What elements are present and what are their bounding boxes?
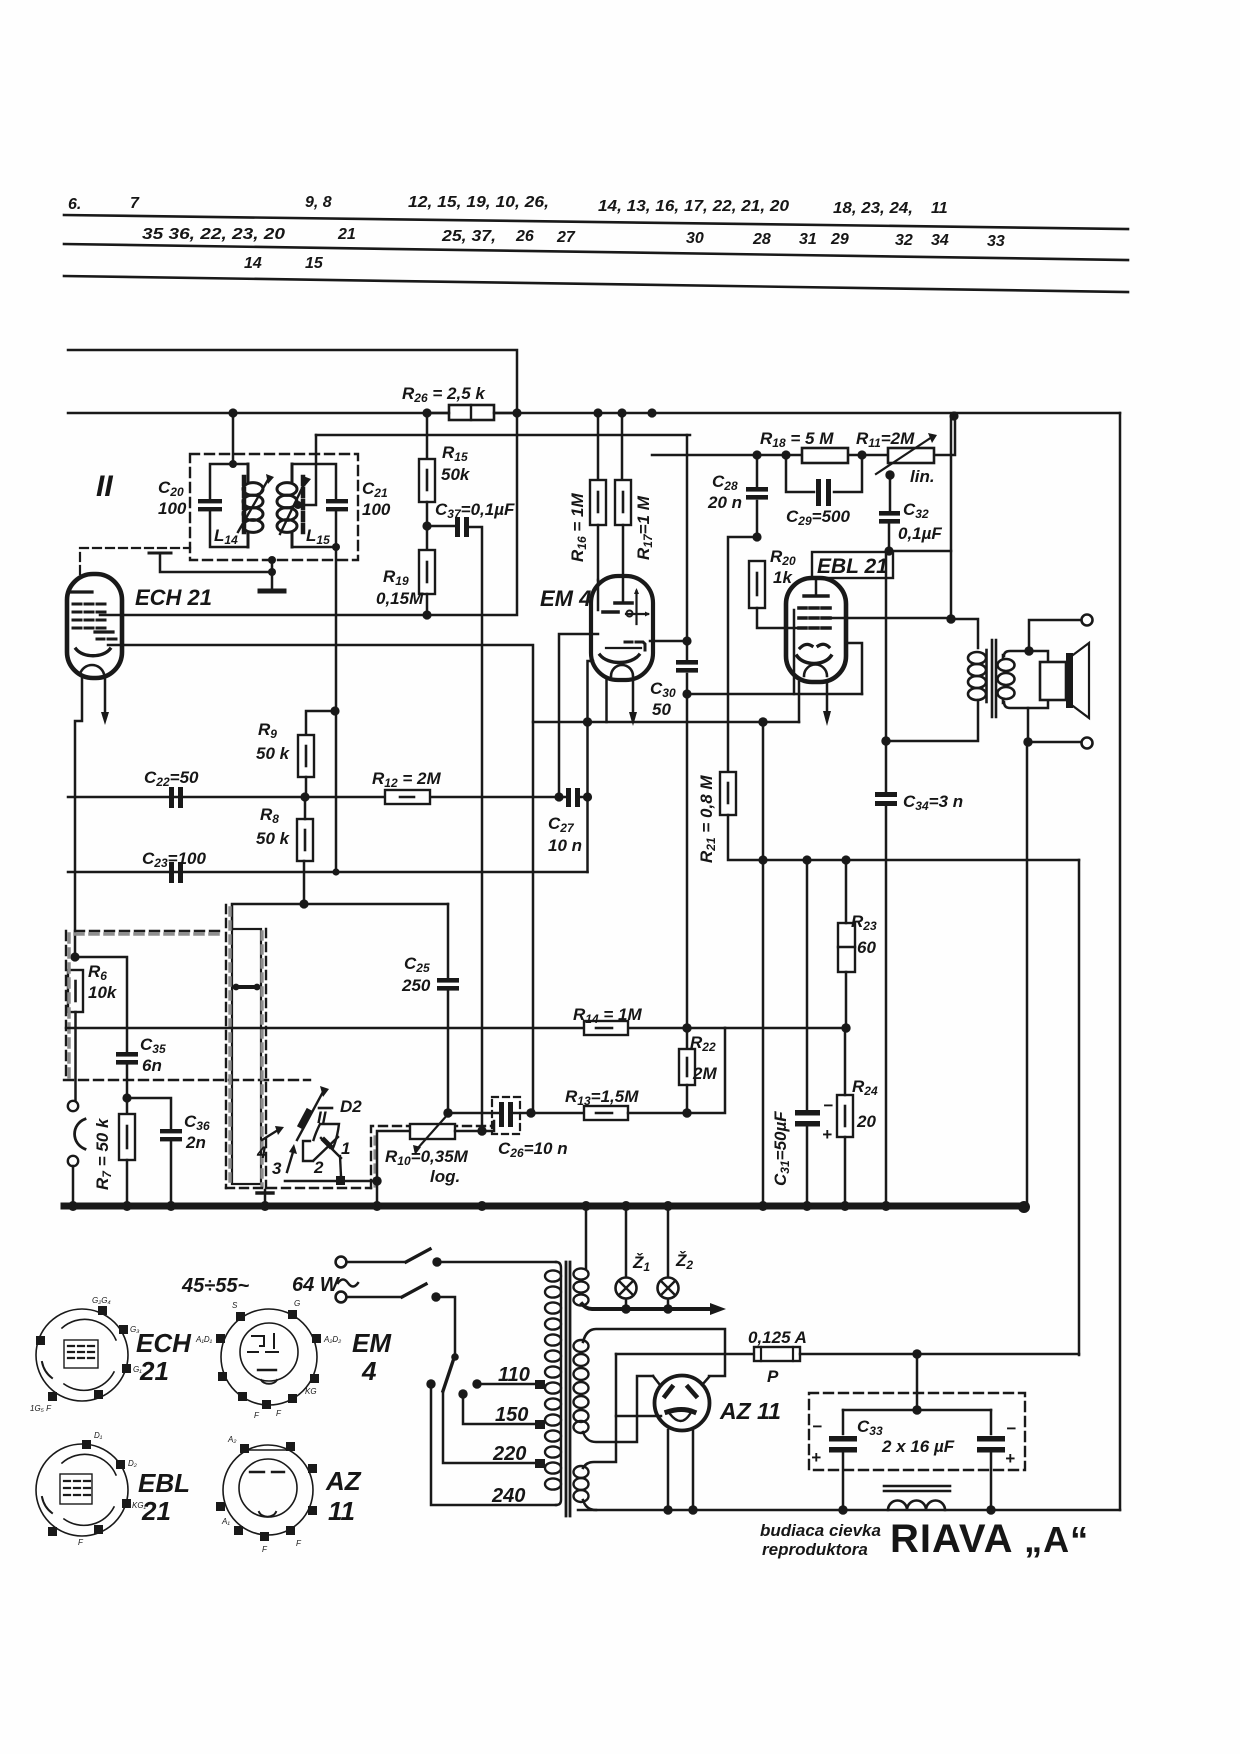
arrow EM4 to chassis: [632, 680, 635, 714]
svg-text:2 x 16 µF: 2 x 16 µF: [881, 1437, 955, 1456]
svg-text:4: 4: [256, 1143, 267, 1162]
voltage selector blade: [443, 1355, 455, 1391]
dashed shield box front-end: [64, 931, 310, 1080]
wire EM4 cathode to C23 line: [586, 722, 589, 872]
terminal mains L: [336, 1257, 347, 1268]
node R15-C37-R19: [422, 521, 431, 530]
EBL21 label frame: [812, 552, 893, 578]
svg-text:2n: 2n: [185, 1133, 206, 1152]
tuned circuit L15 loop: [292, 464, 336, 547]
svg-text:R18 = 5 M: R18 = 5 M: [760, 429, 834, 450]
node R8-R9: [300, 792, 309, 801]
svg-text:15: 15: [305, 255, 324, 272]
resistor R23: [838, 923, 855, 972]
svg-text:11: 11: [328, 1496, 355, 1526]
svg-text:R16 = 1M: R16 = 1M: [568, 493, 589, 562]
grid cap bar: [149, 552, 171, 555]
svg-text:+: +: [811, 1448, 821, 1467]
svg-text:110: 110: [498, 1364, 530, 1386]
wire R18 R11 line: [652, 413, 955, 455]
resistor R19: [419, 550, 435, 594]
EBL21 top bar: [804, 594, 828, 597]
wire H1 top supply: [68, 350, 517, 413]
svg-text:EBL 21: EBL 21: [817, 555, 888, 578]
svg-text:EBL: EBL: [138, 1468, 190, 1498]
svg-text:−: −: [1006, 1419, 1016, 1438]
svg-text:RIAVA „A“: RIAVA „A“: [890, 1517, 1089, 1561]
wire C33 feed down: [916, 1354, 919, 1410]
svg-text:34: 34: [931, 232, 949, 249]
node H2-IF: [228, 408, 237, 417]
wire R16 to EM4: [597, 525, 600, 580]
wiring table row 3 numbers: [244, 255, 324, 272]
svg-text:−: −: [812, 1417, 822, 1436]
tube EBL21 envelope: [786, 578, 846, 682]
svg-text:G₂G₄: G₂G₄: [92, 1296, 111, 1305]
svg-text:AZ: AZ: [325, 1466, 362, 1496]
terminal antenna: [68, 1101, 78, 1111]
wire R14 line: [66, 1027, 725, 1030]
svg-text:C34=3 n: C34=3 n: [903, 792, 963, 813]
node IF box shield ground: [268, 556, 276, 564]
svg-text:C23=100: C23=100: [142, 849, 206, 870]
node contact sector: [336, 1176, 345, 1185]
power transformer filament winding: [574, 1466, 589, 1502]
wire EM4 to C30 node: [650, 640, 687, 643]
terminal speaker top: [1082, 615, 1093, 626]
speaker cone: [1073, 643, 1089, 718]
dashed shield gray overlay: [69, 934, 222, 1078]
node C34 primary: [881, 736, 890, 745]
svg-text:+: +: [1005, 1449, 1015, 1468]
node R11 wiper: [885, 470, 894, 479]
svg-text:C31=50µF: C31=50µF: [771, 1111, 792, 1186]
node secondary top: [1024, 646, 1033, 655]
node EBL cathode H860: [758, 855, 767, 864]
node C30 bottom: [682, 689, 691, 698]
node EBL anode junction: [946, 614, 955, 623]
wire R9 bottom: [305, 777, 308, 797]
lamp Z2 feed: [667, 1206, 670, 1309]
wire R20 to EBL grid: [757, 608, 799, 628]
core L15 dashed: [301, 477, 306, 533]
EM4 cathode arc: [606, 647, 641, 649]
wire secondary bottom: [1027, 708, 1030, 742]
wire fuse to right frame: [800, 1353, 1079, 1356]
coil L15: [277, 464, 297, 547]
arrow EBL to chassis: [826, 682, 829, 713]
svg-text:R14 = 1M: R14 = 1M: [573, 1005, 642, 1026]
node C33 center: [912, 1405, 921, 1414]
node bus-lamp1: [621, 1201, 631, 1211]
wiring table line 2: [64, 244, 1128, 260]
svg-text:C22=50: C22=50: [144, 768, 199, 789]
node C28 R20 R21: [752, 532, 761, 541]
wire volume feed box top: [232, 904, 448, 929]
node R22 top: [682, 1023, 691, 1032]
wire R9 top: [306, 711, 335, 735]
wire speaker return to bus: [1026, 742, 1029, 1206]
node R22 bottom: [682, 1108, 691, 1117]
node bus-lamp2: [663, 1201, 673, 1211]
node secondary bottom: [1023, 737, 1032, 746]
potentiometer R10: [410, 1124, 455, 1139]
svg-text:R13=1,5M: R13=1,5M: [565, 1087, 639, 1108]
node bus-speaker end: [1018, 1201, 1030, 1213]
wire C30 branch: [686, 435, 689, 1049]
wire R10 left to ground: [377, 1131, 410, 1206]
band switch arrow main: [297, 1090, 324, 1140]
switch wafer frame: [232, 929, 261, 1184]
wiring table row 2 numbers: [142, 226, 1005, 250]
wire C35 to node: [126, 1065, 129, 1114]
svg-text:II: II: [96, 470, 113, 503]
svg-text:14, 13, 16, 17, 22, 21, 20: 14, 13, 16, 17, 22, 21, 20: [598, 198, 789, 215]
svg-text:A₂D₂: A₂D₂: [323, 1335, 341, 1344]
resistor R24: [837, 1095, 853, 1137]
wire R13 to R22: [628, 1028, 725, 1113]
wire H2 to IF primary: [232, 413, 235, 464]
node C35-C36-R7: [122, 1093, 131, 1102]
wire C36 to bus: [170, 1142, 173, 1206]
svg-text:14: 14: [244, 255, 262, 272]
svg-text:100: 100: [362, 500, 391, 519]
wire C32 node right: [889, 550, 951, 553]
wire heater line thick: [582, 1304, 710, 1309]
EBL21 cathode frown: [797, 656, 831, 664]
node bus-R24: [840, 1201, 850, 1211]
terminal mains N: [336, 1292, 347, 1303]
capacitor C20: [198, 499, 222, 503]
wire cathode tie line: [533, 721, 799, 724]
node cathode EBL: [758, 717, 767, 726]
svg-text:240: 240: [491, 1485, 525, 1507]
capacitor C28: [756, 455, 759, 537]
svg-text:50 k: 50 k: [256, 829, 291, 848]
node R8 feed: [299, 899, 308, 908]
node C28 top: [752, 450, 761, 459]
capacitor C34: [875, 792, 897, 797]
tube EM4 envelope: [591, 576, 653, 680]
wire bottom return line: [578, 1509, 1120, 1512]
dashed shield bottom run: [226, 1187, 371, 1189]
wire C22 line: [68, 796, 588, 799]
svg-text:64 W: 64 W: [292, 1274, 341, 1296]
svg-text:150: 150: [495, 1404, 528, 1426]
wire ECH21 grid line 2: [108, 645, 533, 1113]
wire C26 to R13: [513, 1112, 584, 1115]
wiring table line 1: [64, 215, 1128, 229]
antenna coupling arc: [75, 1119, 85, 1149]
capacitor C22: [169, 787, 174, 808]
wire to bottom terminal: [1028, 741, 1081, 744]
ground bar IF: [260, 589, 284, 594]
ECH21 top cap bar: [71, 590, 92, 593]
EM4 target cross: [626, 591, 648, 624]
output transformer secondary: [998, 655, 1015, 703]
wire filament bottom to return: [583, 1500, 596, 1510]
capacitor C32: [879, 511, 900, 516]
resistor R9: [298, 735, 314, 777]
node R6 top: [70, 952, 79, 961]
tap square 220: [535, 1459, 545, 1468]
svg-text:21: 21: [141, 1496, 171, 1526]
capacitor C29: [786, 455, 862, 492]
svg-text:3: 3: [272, 1159, 282, 1178]
node C33a return: [838, 1505, 847, 1514]
svg-text:reproduktora: reproduktora: [762, 1540, 868, 1559]
switch mains pole 1: [347, 1261, 406, 1264]
capacitor C33b: [990, 1410, 993, 1510]
svg-text:21: 21: [139, 1356, 169, 1386]
svg-text:G: G: [294, 1299, 300, 1308]
arrow ECH21 to chassis: [104, 678, 107, 714]
wire filament tee to AZ11: [616, 1415, 661, 1418]
svg-text:0,125 A: 0,125 A: [748, 1328, 807, 1347]
wafer coupling bar: [236, 985, 257, 989]
power transformer core: [566, 1262, 570, 1516]
node C29 left: [781, 450, 790, 459]
node shield tie: [268, 568, 276, 576]
wire ECH21 anode line: [100, 413, 517, 615]
tap square 150: [535, 1420, 545, 1429]
wire C25 to wiper node: [447, 991, 450, 1113]
wire secondary top to terminal: [1029, 620, 1081, 651]
ECH21 grid2 dashes: [97, 638, 116, 641]
fuse P: [616, 1353, 754, 1356]
wire EM4 cathode lead: [588, 661, 594, 722]
node cathode EM4: [583, 717, 592, 726]
EM4 bottom dome: [611, 665, 633, 676]
wire R15 top: [426, 413, 429, 459]
wire C23 line: [68, 871, 588, 874]
resistor R16: [590, 480, 606, 525]
svg-text:35 36, 22, 23, 20: 35 36, 22, 23, 20: [142, 226, 285, 243]
node L15 bottom / C21: [332, 543, 340, 551]
svg-text:10k: 10k: [88, 983, 118, 1002]
capacitor C30: [676, 660, 698, 665]
wire grid line y435: [316, 434, 690, 437]
wire ECH21 cathode lead: [75, 678, 82, 957]
node C33b return: [986, 1505, 995, 1514]
wire HT bottom to AZ11 anode 2: [583, 1376, 653, 1442]
lamp Z1 feed: [625, 1206, 628, 1309]
svg-text:KG: KG: [305, 1387, 317, 1396]
node bus-C34: [881, 1201, 891, 1211]
node bus-R7: [122, 1201, 132, 1211]
wire B+ to anode node: [950, 417, 953, 619]
svg-text:D₂: D₂: [128, 1459, 137, 1468]
wire HT top to AZ11 anode 1: [583, 1329, 725, 1376]
capacitor C27: [566, 788, 571, 807]
node bus-terminal: [68, 1201, 78, 1211]
arrow through L15: [280, 480, 306, 534]
wire EBL screen loop: [846, 643, 862, 694]
svg-text:2: 2: [313, 1158, 324, 1177]
svg-text:P: P: [767, 1367, 779, 1386]
svg-text:28: 28: [752, 231, 771, 248]
wiring table line 3: [64, 276, 1128, 292]
EM4 target bar: [615, 601, 632, 605]
wire L15 tap to grid line: [298, 435, 316, 505]
socket AZ11: [216, 1442, 317, 1541]
node R9 top tie: [330, 706, 339, 715]
svg-text:30: 30: [686, 230, 704, 247]
svg-text:S: S: [232, 1301, 238, 1310]
capacitor C25: [437, 978, 459, 983]
node C33 feed: [912, 1349, 921, 1358]
svg-text:R12 = 2M: R12 = 2M: [372, 769, 441, 790]
speaker voice coil: [1040, 662, 1066, 700]
node bus-EBLcathode: [758, 1201, 768, 1211]
wire C25 branch: [447, 904, 450, 977]
arrow through L14: [238, 478, 269, 532]
dashed box C26: [492, 1097, 520, 1134]
node bus-heaterwdg: [581, 1201, 591, 1211]
svg-text:D2: D2: [340, 1097, 362, 1116]
selector contact 240: [426, 1379, 435, 1388]
speaker magnet bar: [1066, 653, 1073, 708]
wire EBL bottom lead: [798, 682, 801, 722]
wire R14 line extension to R23: [725, 1027, 846, 1030]
node C32 bottom: [884, 546, 893, 555]
power transformer heater winding: [574, 1268, 589, 1305]
ground bus: [64, 1203, 1025, 1210]
wire anode node to transformer: [951, 619, 978, 648]
svg-text:1k: 1k: [773, 568, 793, 587]
resistor R6: [68, 970, 83, 1012]
EM4 grid bar: [603, 610, 618, 614]
resistor R22: [679, 1049, 695, 1085]
svg-text:4: 4: [361, 1356, 377, 1386]
svg-text:+: +: [822, 1125, 832, 1144]
wire R17 top: [621, 413, 624, 480]
node C30 top: [682, 636, 691, 645]
power transformer primary winding: [545, 1262, 561, 1505]
svg-text:EM: EM: [352, 1328, 392, 1358]
node R23 R24: [841, 1023, 850, 1032]
resistor R12: [385, 790, 430, 804]
svg-text:2M: 2M: [692, 1064, 717, 1083]
socket EBL21: [36, 1440, 131, 1536]
wire AZ11 cathode down: [668, 1430, 693, 1510]
capacitor C21: [326, 499, 348, 503]
svg-text:50k: 50k: [441, 465, 471, 484]
svg-text:21: 21: [337, 226, 356, 243]
svg-text:20: 20: [856, 1112, 876, 1131]
svg-text:0,1µF: 0,1µF: [898, 524, 942, 543]
tap square 110: [535, 1380, 545, 1389]
EBL21 internal bracket: [793, 610, 796, 694]
svg-text:C29=500: C29=500: [786, 507, 850, 528]
wire earth terminal to bus: [72, 1166, 75, 1206]
svg-text:100: 100: [158, 499, 187, 518]
dashed shield around R10: [371, 1126, 492, 1188]
resistor R7: [119, 1114, 135, 1160]
rotary switch sector: [314, 1124, 340, 1148]
node C26 ECH line: [526, 1108, 535, 1117]
output transformer core: [992, 640, 996, 717]
svg-text:33: 33: [987, 233, 1005, 250]
svg-text:50: 50: [652, 700, 671, 719]
svg-text:R7 = 50 k: R7 = 50 k: [93, 1117, 114, 1190]
AZ11 filament arc: [667, 1410, 694, 1413]
selector contact 150: [458, 1389, 467, 1398]
resistor R20: [749, 561, 765, 608]
lamp Z2: [658, 1278, 679, 1299]
svg-text:−: −: [823, 1096, 833, 1115]
wire 110 tap: [477, 1383, 536, 1386]
svg-text:A₁D₁: A₁D₁: [195, 1335, 213, 1344]
node R10 C37: [477, 1126, 486, 1135]
capacitor C37: [455, 517, 460, 537]
svg-text:50 k: 50 k: [256, 744, 291, 763]
node AZ11 return: [663, 1505, 672, 1514]
wire R21 bottom to H860: [728, 815, 1079, 860]
wire shield to ground: [271, 560, 274, 591]
node C27 left: [554, 792, 563, 801]
wire node to C36: [127, 1098, 171, 1128]
capacitor C23: [169, 862, 174, 883]
potentiometer R11: [888, 448, 934, 463]
svg-text:220: 220: [492, 1443, 526, 1465]
wire R22 bottom: [686, 1085, 689, 1113]
coil L14: [243, 464, 263, 547]
svg-text:29: 29: [830, 231, 849, 248]
node R23 top: [841, 855, 850, 864]
resistor R18: [802, 448, 848, 463]
tube ECH21 envelope: [67, 574, 122, 678]
ECH21 grid dashes: [73, 604, 105, 628]
wire heater winding top to bus: [585, 1206, 588, 1268]
svg-text:45÷55~: 45÷55~: [181, 1275, 249, 1297]
wire R23 leads: [845, 860, 848, 1028]
arrow heater line: [710, 1303, 726, 1315]
node bus-R10: [372, 1201, 382, 1211]
svg-text:1: 1: [341, 1139, 350, 1158]
svg-text:6.: 6.: [68, 196, 81, 213]
wire to C37: [427, 525, 454, 528]
svg-text:A₁: A₁: [221, 1517, 230, 1526]
svg-text:9, 8: 9, 8: [305, 194, 332, 211]
svg-text:log.: log.: [430, 1167, 460, 1186]
wire 220 tap: [443, 1391, 536, 1463]
resistor R17: [615, 480, 631, 525]
wire C33 top link: [843, 1409, 991, 1412]
core L14 dashed: [242, 477, 247, 533]
wire right loop down to fuse: [1078, 860, 1081, 1355]
wire R24 leads: [844, 1028, 847, 1206]
svg-text:lin.: lin.: [910, 467, 935, 486]
tube AZ11: [655, 1376, 710, 1431]
svg-text:C37=0,1µF: C37=0,1µF: [435, 500, 515, 521]
tuned circuit L14 loop: [210, 464, 248, 547]
wire C34 branch: [885, 551, 888, 1206]
capacitor C26: [499, 1102, 504, 1127]
svg-text:10 n: 10 n: [548, 836, 582, 855]
wire grid line to C26: [448, 1112, 498, 1115]
output transformer primary: [968, 650, 987, 702]
dashed shield ECH21 top: [80, 548, 190, 574]
resistor R26: [449, 405, 494, 420]
svg-text:250: 250: [401, 976, 431, 995]
node bus-C36: [166, 1201, 176, 1211]
band switch arrow 3: [287, 1152, 293, 1172]
resistor R14: [584, 1021, 628, 1035]
svg-text:AZ 11: AZ 11: [719, 1398, 781, 1424]
wire 240 tap: [431, 1384, 556, 1505]
wiring table row 1 numbers: [68, 194, 948, 217]
